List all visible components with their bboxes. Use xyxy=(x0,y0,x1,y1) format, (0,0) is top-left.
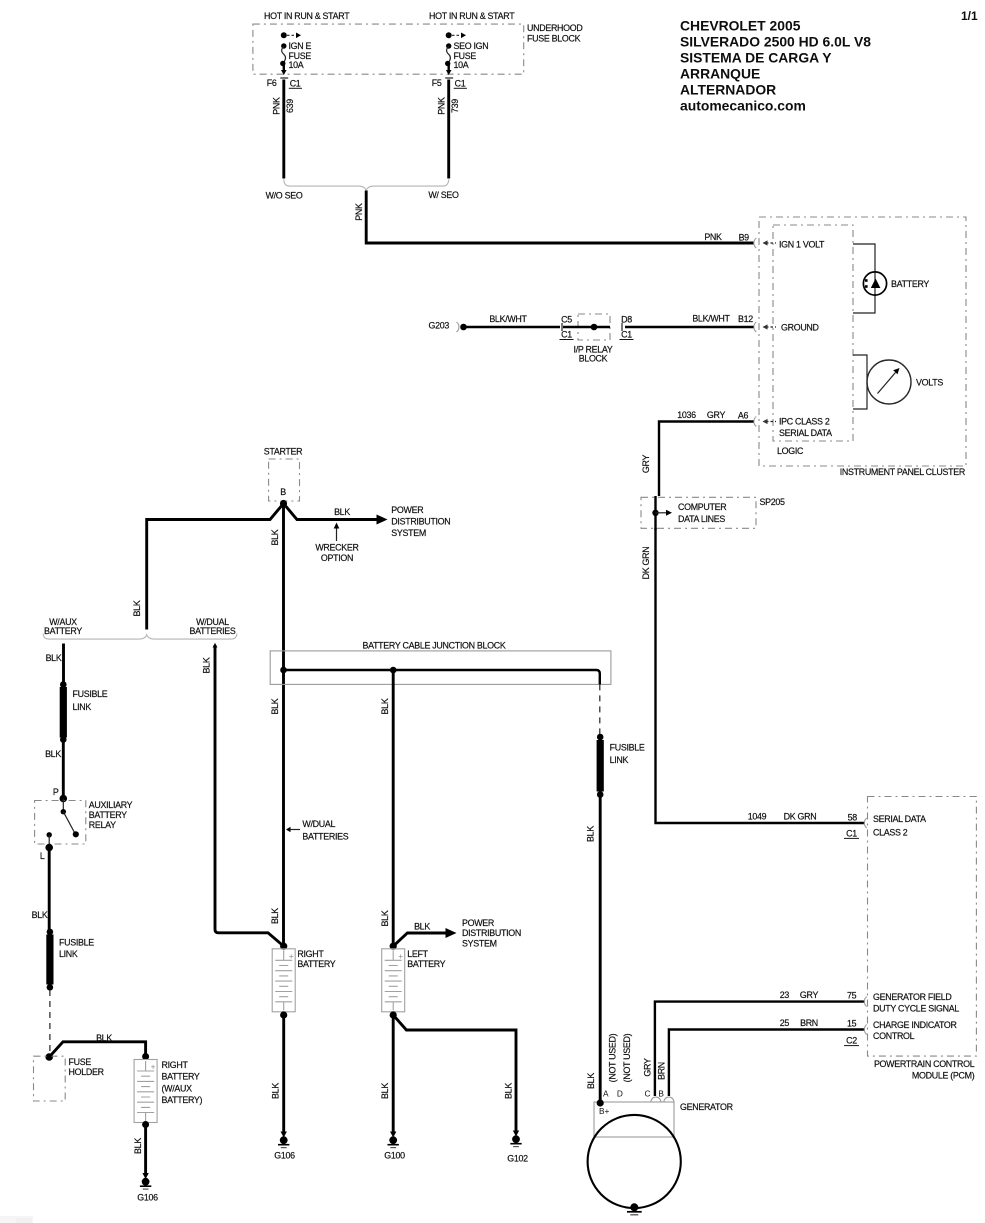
terminal B9 / IGN 1 VOLT xyxy=(754,238,825,249)
svg-text:LOGIC: LOGIC xyxy=(777,446,804,456)
svg-text:BLK: BLK xyxy=(334,507,350,517)
svg-text:75: 75 xyxy=(847,991,857,1001)
wire PNK 639 (F6 down) xyxy=(271,80,295,179)
svg-text:C1: C1 xyxy=(290,78,301,88)
svg-text:PNK: PNK xyxy=(271,97,281,115)
svg-text:BLK: BLK xyxy=(585,826,595,842)
ground G106 (aux battery) xyxy=(137,1173,158,1202)
svg-text:SYSTEM: SYSTEM xyxy=(462,939,497,949)
svg-text:POWER: POWER xyxy=(462,918,494,928)
svg-text:GENERATOR FIELD: GENERATOR FIELD xyxy=(873,992,952,1002)
svg-text:C5: C5 xyxy=(561,315,572,325)
svg-text:B+: B+ xyxy=(599,1106,610,1116)
fusible link (generator feed) xyxy=(597,734,645,798)
connector D8 / C1 xyxy=(620,315,634,340)
svg-text:WRECKER: WRECKER xyxy=(315,542,358,552)
svg-text:BLK: BLK xyxy=(270,908,280,924)
svg-text:1/1: 1/1 xyxy=(961,9,978,23)
battery cable junction block xyxy=(270,641,611,685)
wire BLK junction block to left battery xyxy=(380,670,393,944)
ground G100 xyxy=(384,1132,405,1161)
svg-text:HOT IN RUN & START: HOT IN RUN & START xyxy=(264,11,350,21)
svg-text:POWER: POWER xyxy=(391,505,423,515)
svg-text:1036: 1036 xyxy=(677,410,696,420)
svg-text:IGN 1 VOLT: IGN 1 VOLT xyxy=(779,239,825,249)
svg-text:UNDERHOOD: UNDERHOOD xyxy=(527,23,582,33)
svg-text:SERIAL DATA: SERIAL DATA xyxy=(873,814,926,824)
svg-text:ARRANQUE: ARRANQUE xyxy=(680,66,760,82)
svg-text:W/ SEO: W/ SEO xyxy=(428,190,459,200)
generator U1 xyxy=(588,1097,733,1208)
wire BLK to power distribution system (starter) xyxy=(284,504,451,538)
starter (dashed box) xyxy=(264,446,303,507)
svg-text:BLK: BLK xyxy=(270,529,280,545)
svg-text:BATTERY: BATTERY xyxy=(407,959,445,969)
page number 1/1 xyxy=(961,9,978,23)
svg-text:F5: F5 xyxy=(432,78,442,88)
svg-text:LEFT: LEFT xyxy=(407,949,428,959)
svg-text:GRY: GRY xyxy=(641,455,651,474)
wire PNK 739 (F5 down) xyxy=(436,80,460,179)
svg-text:GROUND: GROUND xyxy=(781,322,819,332)
svg-text:15: 15 xyxy=(847,1019,857,1029)
wire PNK (merged) to B9 xyxy=(354,191,754,244)
terminal B12 / GROUND xyxy=(754,322,819,332)
svg-text:POWERTRAIN CONTROL: POWERTRAIN CONTROL xyxy=(874,1059,975,1069)
I/P relay block xyxy=(563,314,613,364)
svg-text:BLOCK: BLOCK xyxy=(579,354,608,364)
svg-text:B: B xyxy=(658,1089,664,1099)
svg-text:C1: C1 xyxy=(561,330,572,340)
svg-text:G106: G106 xyxy=(274,1150,295,1160)
svg-text:BLK/WHT: BLK/WHT xyxy=(489,314,527,324)
splice SP205 computer data lines box xyxy=(641,496,785,530)
svg-text:58: 58 xyxy=(848,812,858,822)
svg-text:HOLDER: HOLDER xyxy=(69,1067,104,1077)
svg-text:D: D xyxy=(617,1089,623,1099)
wire BLK starter down to right battery xyxy=(270,504,283,945)
svg-text:LINK: LINK xyxy=(73,702,92,712)
svg-text:SP205: SP205 xyxy=(760,497,786,507)
svg-text:FUSIBLE: FUSIBLE xyxy=(610,742,645,752)
svg-text:DK GRN: DK GRN xyxy=(641,547,651,580)
ground G102 xyxy=(507,1131,528,1164)
svg-text:BATTERY: BATTERY xyxy=(162,1072,200,1082)
svg-text:BLK/WHT: BLK/WHT xyxy=(692,314,730,324)
svg-text:BLK: BLK xyxy=(414,922,430,932)
svg-text:C: C xyxy=(645,1089,651,1099)
node label W/DUAL BATTERIES (arrow to wire) xyxy=(286,819,349,841)
svg-text:LINK: LINK xyxy=(610,755,629,765)
svg-text:SILVERADO 2500 HD 6.0L V8: SILVERADO 2500 HD 6.0L V8 xyxy=(680,34,871,50)
wire 25 BRN 15 (charge indicator control) xyxy=(656,1018,866,1096)
svg-text:SERIAL DATA: SERIAL DATA xyxy=(779,428,832,438)
fusible link (lower left) xyxy=(46,929,94,991)
wire 1036 GRY from A6 xyxy=(641,410,754,496)
svg-text:BLK: BLK xyxy=(380,698,390,714)
svg-text:CONTROL: CONTROL xyxy=(873,1031,915,1041)
battery telltale indicator xyxy=(853,244,929,313)
svg-text:FUSIBLE: FUSIBLE xyxy=(59,938,94,948)
generator case ground xyxy=(627,1203,642,1215)
wrecker option arrow xyxy=(315,523,358,564)
svg-text:G106: G106 xyxy=(137,1192,158,1202)
svg-text:SEO IGN: SEO IGN xyxy=(454,41,489,51)
svg-text:GENERATOR: GENERATOR xyxy=(680,1102,733,1112)
svg-text:B9: B9 xyxy=(739,233,750,243)
wire BLK left battery to G102 xyxy=(393,1015,516,1131)
logic box xyxy=(773,225,853,456)
svg-text:FUSIBLE: FUSIBLE xyxy=(73,689,108,699)
svg-text:P: P xyxy=(53,787,59,797)
svg-text:BATTERY): BATTERY) xyxy=(162,1095,203,1105)
svg-text:C2: C2 xyxy=(846,1036,857,1046)
connector F5 / C1 xyxy=(432,78,467,88)
auxiliary battery relay xyxy=(35,787,133,861)
svg-text:BLK: BLK xyxy=(270,698,280,714)
generator pin labels (NOT USED) A D, GRY C, BRN B xyxy=(603,1033,664,1098)
svg-text:BLK: BLK xyxy=(586,1073,596,1089)
svg-text:BATTERIES: BATTERIES xyxy=(302,831,348,841)
svg-text:(NOT USED): (NOT USED) xyxy=(622,1033,632,1082)
svg-text:BLK: BLK xyxy=(96,1033,112,1043)
connector C5 / C1 xyxy=(560,315,574,340)
svg-text:PNK: PNK xyxy=(436,97,446,115)
svg-text:BATTERIES: BATTERIES xyxy=(190,626,236,636)
svg-text:AUXILIARY: AUXILIARY xyxy=(89,800,133,810)
svg-text:10A: 10A xyxy=(454,60,469,70)
wire BLK w/dual batteries down to right battery xyxy=(201,643,283,946)
svg-text:IGN E: IGN E xyxy=(289,41,312,51)
terminal A6 / IPC CLASS 2 SERIAL DATA xyxy=(754,416,832,438)
battery: LEFT BATTERY xyxy=(382,943,446,1019)
wire BLK to generator B+ xyxy=(585,795,600,1101)
svg-text:SYSTEM: SYSTEM xyxy=(391,528,426,538)
wire BLK/WHT G203 to C5 xyxy=(464,314,561,327)
merge brace W/O SEO / W SEO xyxy=(266,180,459,201)
svg-text:DISTRIBUTION: DISTRIBUTION xyxy=(391,516,450,526)
svg-text:B: B xyxy=(280,487,286,497)
svg-text:G102: G102 xyxy=(507,1153,528,1163)
svg-text:PNK: PNK xyxy=(704,232,722,242)
connector F6 / C1 xyxy=(267,78,302,88)
wire DK GRN to PCM C1-58 xyxy=(641,528,867,838)
svg-text:1049: 1049 xyxy=(748,812,767,822)
svg-text:IPC CLASS 2: IPC CLASS 2 xyxy=(779,416,830,426)
svg-text:FUSE BLOCK: FUSE BLOCK xyxy=(527,34,581,44)
svg-text:A: A xyxy=(603,1089,609,1099)
net label HOT IN RUN & START (left) xyxy=(264,11,350,21)
svg-text:BATTERY: BATTERY xyxy=(89,810,127,820)
svg-text:G100: G100 xyxy=(384,1150,405,1160)
fuse SEO IGN FUSE 10A xyxy=(445,32,488,75)
wire BLK to power distribution system (left battery) xyxy=(393,918,521,949)
svg-text:L: L xyxy=(40,851,45,861)
wire BLK w/aux battery down xyxy=(46,644,64,684)
svg-text:BLK: BLK xyxy=(380,1083,390,1099)
svg-text:BLK: BLK xyxy=(46,653,62,663)
svg-text:VOLTS: VOLTS xyxy=(916,377,943,387)
svg-text:BATTERY: BATTERY xyxy=(44,626,82,636)
svg-text:10A: 10A xyxy=(289,60,304,70)
wire BLK relay L down xyxy=(32,848,50,930)
svg-text:CHARGE INDICATOR: CHARGE INDICATOR xyxy=(873,1020,957,1030)
svg-text:A6: A6 xyxy=(738,411,749,421)
net label HOT IN RUN & START (right) xyxy=(429,11,515,21)
svg-text:HOT IN RUN & START: HOT IN RUN & START xyxy=(429,11,515,21)
svg-text:23: 23 xyxy=(780,990,790,1000)
title block text xyxy=(680,18,871,114)
svg-text:DK GRN: DK GRN xyxy=(784,812,817,822)
svg-text:BATTERY CABLE JUNCTION BLOCK: BATTERY CABLE JUNCTION BLOCK xyxy=(362,641,505,651)
underhood fuse block (dashed box) xyxy=(253,23,583,74)
svg-text:C1: C1 xyxy=(846,828,857,838)
svg-text:SISTEMA DE CARGA Y: SISTEMA DE CARGA Y xyxy=(680,50,832,66)
svg-text:C1: C1 xyxy=(455,78,466,88)
svg-text:B12: B12 xyxy=(738,314,753,324)
wire BLK/WHT to B12 xyxy=(625,314,754,327)
svg-text:(NOT USED): (NOT USED) xyxy=(607,1033,617,1082)
svg-text:RELAY: RELAY xyxy=(89,820,116,830)
svg-text:C1: C1 xyxy=(621,330,632,340)
wire BLK right battery to G106 xyxy=(270,1015,283,1132)
svg-text:G203: G203 xyxy=(428,320,449,330)
svg-text:BRN: BRN xyxy=(800,1018,818,1028)
svg-text:BLK: BLK xyxy=(503,1083,513,1099)
svg-text:BRN: BRN xyxy=(656,1062,666,1080)
wire 23 GRY 75 (generator field duty cycle) xyxy=(642,990,866,1096)
svg-text:BATTERY: BATTERY xyxy=(297,959,335,969)
svg-text:739: 739 xyxy=(450,99,460,113)
svg-text:BLK: BLK xyxy=(270,1083,280,1099)
svg-text:PNK: PNK xyxy=(354,203,364,221)
svg-text:FUSE: FUSE xyxy=(69,1057,92,1067)
svg-text:MODULE (PCM): MODULE (PCM) xyxy=(912,1071,975,1081)
svg-text:RIGHT: RIGHT xyxy=(162,1060,189,1070)
svg-text:BLK: BLK xyxy=(45,749,61,759)
svg-text:D8: D8 xyxy=(621,315,632,325)
svg-text:STARTER: STARTER xyxy=(264,446,303,456)
svg-text:OPTION: OPTION xyxy=(321,553,353,563)
svg-text:BLK: BLK xyxy=(132,600,142,616)
battery: RIGHT BATTERY (W/AUX BATTERY) xyxy=(134,1053,202,1128)
svg-text:639: 639 xyxy=(285,99,295,113)
svg-text:W/O SEO: W/O SEO xyxy=(266,191,303,201)
svg-text:ALTERNADOR: ALTERNADOR xyxy=(680,82,776,98)
svg-text:BLK: BLK xyxy=(32,910,48,920)
faint scan artifact bottom-left xyxy=(0,1216,33,1223)
wire BLK starter to aux-battery brace xyxy=(132,504,284,630)
svg-text:BLK: BLK xyxy=(380,910,390,926)
fuse holder (dashed box) xyxy=(34,1053,104,1101)
svg-text:W/DUAL: W/DUAL xyxy=(302,819,335,829)
svg-text:(W/AUX: (W/AUX xyxy=(162,1083,193,1093)
powertrain control module (PCM) box xyxy=(868,797,977,1081)
wire BLK to G106 (aux) xyxy=(133,1125,146,1173)
svg-text:DISTRIBUTION: DISTRIBUTION xyxy=(462,928,521,938)
dashed wire to fuse holder xyxy=(49,990,51,1052)
ground G203 xyxy=(428,320,466,332)
svg-text:F6: F6 xyxy=(267,78,277,88)
svg-text:INSTRUMENT PANEL CLUSTER: INSTRUMENT PANEL CLUSTER xyxy=(840,467,965,477)
wire BLK to relay P xyxy=(45,741,63,797)
volts gauge xyxy=(853,355,943,409)
svg-text:LINK: LINK xyxy=(59,949,78,959)
brace W/AUX BATTERY / W/DUAL BATTERIES xyxy=(43,617,237,639)
svg-text:BLK: BLK xyxy=(133,1138,143,1154)
svg-text:GRY: GRY xyxy=(800,990,819,1000)
ground G106 (right battery) xyxy=(274,1132,295,1161)
wire BLK left battery to G100 xyxy=(380,1015,393,1132)
svg-text:25: 25 xyxy=(780,1018,790,1028)
svg-text:RIGHT: RIGHT xyxy=(297,949,324,959)
svg-text:COMPUTER: COMPUTER xyxy=(678,502,726,512)
svg-text:GRY: GRY xyxy=(642,1058,652,1077)
dashed wire from junction block xyxy=(599,684,601,734)
svg-text:automecanico.com: automecanico.com xyxy=(680,98,806,114)
svg-text:CHEVROLET 2005: CHEVROLET 2005 xyxy=(680,18,801,34)
svg-text:BATTERY: BATTERY xyxy=(891,279,929,289)
fuse IGN E FUSE 10A xyxy=(280,32,311,75)
fusible link (upper left) xyxy=(60,681,108,743)
svg-text:DUTY CYCLE SIGNAL: DUTY CYCLE SIGNAL xyxy=(873,1003,959,1013)
wire BLK fuse holder to aux right battery xyxy=(49,1033,145,1057)
svg-text:GRY: GRY xyxy=(707,410,726,420)
svg-text:BLK: BLK xyxy=(201,657,211,673)
svg-text:DATA LINES: DATA LINES xyxy=(678,514,725,524)
battery: RIGHT BATTERY xyxy=(272,943,336,1019)
instrument panel cluster (dashed box) xyxy=(759,217,966,477)
svg-text:CLASS 2: CLASS 2 xyxy=(873,827,908,837)
